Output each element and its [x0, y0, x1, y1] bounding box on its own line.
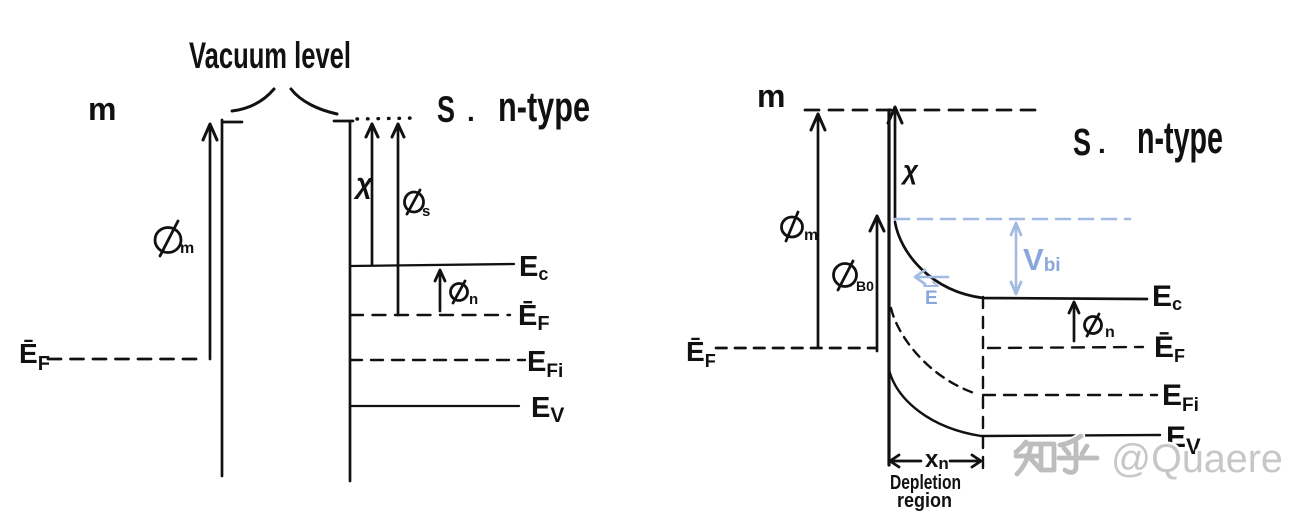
svg-text:χ: χ	[353, 168, 374, 200]
svg-text:E: E	[925, 288, 938, 309]
svg-text:ĒF: ĒF	[686, 336, 716, 371]
svg-text:s: s	[422, 203, 430, 220]
svg-text:B0: B0	[856, 278, 874, 294]
svg-text:EFi: EFi	[527, 346, 563, 382]
svg-text:.: .	[467, 96, 475, 127]
svg-text:m: m	[180, 240, 194, 257]
svg-text:region: region	[897, 490, 952, 512]
svg-text:Vacuum level: Vacuum level	[189, 35, 351, 76]
svg-text:ĒF: ĒF	[19, 338, 50, 375]
svg-text:n-type: n-type	[498, 83, 590, 130]
svg-text:EFi: EFi	[1162, 379, 1199, 416]
svg-text:ĒF: ĒF	[1154, 331, 1185, 366]
svg-text:S: S	[437, 89, 455, 130]
svg-text:n: n	[469, 291, 478, 308]
svg-text:m: m	[804, 227, 818, 244]
svg-text:EV: EV	[531, 392, 564, 427]
svg-text:Ec: Ec	[519, 251, 548, 284]
svg-text:m: m	[757, 78, 785, 114]
svg-text:χ: χ	[900, 155, 919, 185]
svg-text:@Quaere: @Quaere	[1111, 437, 1283, 481]
svg-text:n-type: n-type	[1137, 112, 1223, 163]
svg-text:S: S	[1073, 122, 1091, 164]
svg-text:Ec: Ec	[1152, 280, 1182, 314]
svg-text:ĒF: ĒF	[518, 300, 550, 335]
svg-text:.: .	[1098, 128, 1106, 159]
svg-text:m: m	[88, 91, 116, 127]
svg-text:Vbi: Vbi	[1023, 242, 1061, 277]
svg-text:xn: xn	[925, 446, 949, 473]
svg-text:n: n	[1105, 324, 1115, 341]
